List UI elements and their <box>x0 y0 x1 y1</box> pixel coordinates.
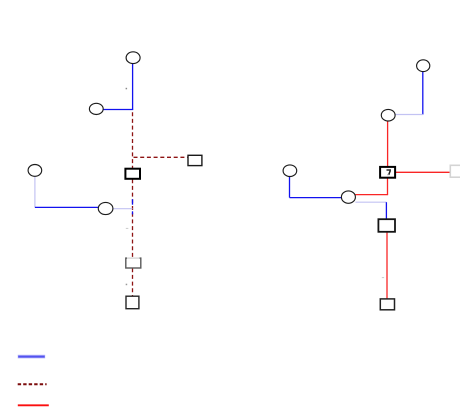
node square S3 light top edge <box>127 257 140 259</box>
node square S3 gray <box>126 258 141 268</box>
label 7 in box B1 faint dot <box>387 174 388 175</box>
wire red vertical S6-S7 <box>386 232 388 299</box>
wire red vertical E6-B1 <box>387 121 389 167</box>
wire blue vertical E7 down <box>289 177 291 198</box>
wire lavender horizontal E8-junction <box>355 201 386 203</box>
wire lavender horizontal E4-junction <box>113 208 133 210</box>
node ellipse E6 <box>381 109 395 121</box>
wire darkred dashed horizontal to S2 <box>134 156 189 158</box>
node ellipse E3 <box>28 165 42 177</box>
legend darkred dashed line <box>18 383 47 385</box>
node square S5 light clipped <box>450 165 460 177</box>
label 7 in box B1 diagonal <box>389 171 391 175</box>
node ellipse E5 <box>417 60 430 72</box>
node box B1 <box>380 167 395 178</box>
dot gray D1 <box>126 88 128 90</box>
wire darkred dashed vertical S3-S4 <box>132 268 134 296</box>
wire lavender horizontal E6-junction <box>395 114 423 116</box>
wire red horizontal E8-junction <box>355 194 388 196</box>
node square S7 <box>380 299 394 310</box>
node square S4 <box>126 296 139 309</box>
dot gray D3 <box>126 284 128 286</box>
wire red horizontal B1-S5 <box>395 171 451 173</box>
wire darkred dashed vertical S1-S3 <box>132 179 134 258</box>
node ellipse E7 <box>283 165 297 177</box>
legend blue line <box>18 356 45 358</box>
legend red line <box>18 404 49 406</box>
node ellipse E2 <box>89 103 103 114</box>
wire blue horizontal E3-E4 <box>35 206 99 208</box>
wire darkred dashed vertical junction-S1 <box>132 112 134 168</box>
legend blue halo <box>18 355 46 359</box>
node square S2 <box>188 155 202 165</box>
label 7 in box B1 top bar <box>387 169 392 171</box>
node ellipse E4 <box>98 202 113 214</box>
dot gray D4 <box>382 277 384 278</box>
wire blue horizontal E2-junction <box>103 109 133 111</box>
node square S6 <box>378 219 395 232</box>
wire lavender vertical from E3 <box>34 176 36 207</box>
node ellipse E1 <box>126 52 140 64</box>
wire blue dash overlay upper <box>132 199 134 205</box>
node square S1 <box>125 169 140 179</box>
wire blue dash overlay lower <box>132 211 134 214</box>
dot gray D2 <box>126 228 129 229</box>
wire red vertical below B1 <box>387 178 389 195</box>
wire blue horizontal E7-E8 <box>290 197 342 199</box>
wire blue vertical E5-junction <box>422 72 424 115</box>
wire blue vertical junction-S6 <box>385 202 387 220</box>
node ellipse E8 <box>341 191 355 203</box>
wire blue vertical E1-junction <box>132 64 134 110</box>
